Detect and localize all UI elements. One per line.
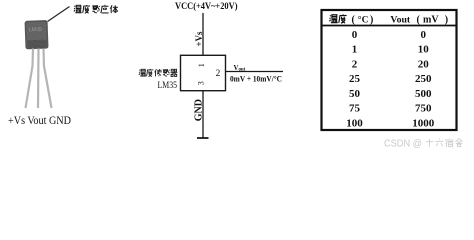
svg-text:20: 20 xyxy=(418,59,430,71)
svg-text:1000: 1000 xyxy=(412,117,435,129)
svg-text:LM35: LM35 xyxy=(158,81,178,91)
svg-text:GND: GND xyxy=(193,99,204,121)
svg-text:10: 10 xyxy=(418,44,430,56)
svg-text:CSDN @: CSDN @ xyxy=(384,139,422,150)
svg-text:3: 3 xyxy=(196,81,205,85)
svg-text:2: 2 xyxy=(352,59,358,71)
svg-text:): ) xyxy=(370,15,373,26)
LM35 temperature sensor U1 box xyxy=(181,55,226,90)
svg-text:mV: mV xyxy=(423,15,439,26)
svg-text:+Vs: +Vs xyxy=(194,31,204,47)
table outer border xyxy=(322,10,457,130)
svg-text:100: 100 xyxy=(346,117,363,129)
svg-text:): ) xyxy=(445,15,448,26)
table header separator xyxy=(321,25,457,27)
header 温度 (°C) xyxy=(329,14,346,23)
svg-text:2: 2 xyxy=(216,69,221,79)
svg-text:1: 1 xyxy=(352,44,358,56)
sensor lead left xyxy=(26,49,34,109)
svg-text:+Vs Vout GND: +Vs Vout GND xyxy=(8,114,71,127)
svg-text:250: 250 xyxy=(415,73,432,85)
svg-text:VCC(+4V~+20V): VCC(+4V~+20V) xyxy=(175,1,238,12)
svg-text:°C: °C xyxy=(358,15,369,26)
table column 2 values xyxy=(412,29,435,129)
wire: pin 3 to ground xyxy=(202,91,204,138)
sensor lead right xyxy=(44,49,52,109)
sensor photo: LM35 package body xyxy=(25,20,49,49)
label 温度传感器 (temperature sensor) xyxy=(139,69,177,77)
svg-text:50: 50 xyxy=(349,88,361,100)
wire: VCC to pin 1 xyxy=(202,13,204,56)
svg-text:75: 75 xyxy=(349,103,361,115)
svg-text:Vout: Vout xyxy=(234,63,246,73)
svg-text:0mV + 10mV/°C: 0mV + 10mV/°C xyxy=(230,74,282,84)
sensor lead middle xyxy=(37,49,40,109)
label: 温度感应体 (temperature sensing body) xyxy=(74,5,118,13)
svg-text:0: 0 xyxy=(421,29,427,41)
header Vout (mV) xyxy=(390,15,448,26)
ground bar xyxy=(197,137,209,139)
svg-text:Vout: Vout xyxy=(390,15,411,26)
table column 1 values xyxy=(346,29,363,129)
svg-text:25: 25 xyxy=(349,73,361,85)
wire: pin 2 output xyxy=(226,71,284,73)
svg-text:0: 0 xyxy=(352,29,358,41)
leader line from label to sensor body xyxy=(48,7,70,22)
svg-text:750: 750 xyxy=(415,103,432,115)
svg-text:500: 500 xyxy=(415,88,432,100)
svg-text:1: 1 xyxy=(197,63,206,67)
